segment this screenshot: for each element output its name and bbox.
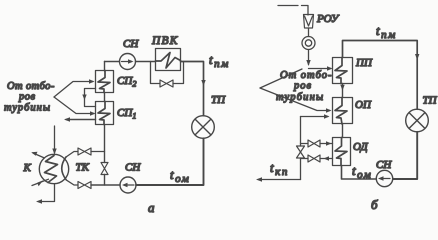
wire: valve to OD with arrow: [320, 143, 333, 145]
wire: ROU to attemperator: [308, 28, 310, 37]
pump SN (top): [120, 54, 136, 70]
svg-text:СП1: СП1: [117, 107, 137, 121]
svg-text:ТК: ТК: [76, 162, 90, 174]
wire: steam from boiler top line: [278, 6, 308, 16]
pump SN (b): [376, 170, 392, 186]
wire: SP1 drain out left arrow: [66, 119, 96, 121]
wire: SP2 top stub to top line: [104, 62, 106, 72]
reducing unit ROU: [304, 15, 314, 29]
wire: SP2 to SP1 stub: [104, 93, 106, 102]
wire: OD outlet line lower: [301, 158, 309, 160]
svg-text:ПП: ПП: [355, 57, 373, 69]
wire: OP drain line left with arrow: [301, 116, 329, 118]
svg-text:ОП: ОП: [355, 99, 372, 111]
wire: pump to OD bottom: [342, 166, 377, 180]
pump SN (bottom): [120, 177, 136, 193]
wire: extraction steam fan upper to SP2: [54, 82, 93, 98]
heating bundle TK crescent: [62, 157, 66, 180]
wire: vertical from SP1 down to bottom line: [104, 125, 106, 185]
wire: SP2 drain cascade into SP1: [85, 89, 96, 107]
svg-text:tпм: tпм: [376, 23, 397, 41]
wire: steam into PP: [309, 68, 332, 70]
wire: PVK bypass left drop: [151, 62, 161, 84]
svg-text:tпм: tпм: [209, 52, 230, 70]
wire: TP down to bottom return line: [136, 138, 204, 185]
svg-text:tом: tом: [170, 167, 190, 185]
wire: PVK bypass right rise: [173, 62, 184, 84]
svg-text:турбины: турбины: [4, 103, 51, 114]
valve on OD inlet: [308, 140, 320, 147]
wire: cooling water inlet bottom-left arrow: [32, 179, 49, 185]
svg-text:РОУ: РОУ: [316, 13, 340, 25]
flow arrow down on right vertical: [201, 80, 205, 86]
valve on OD outlet: [308, 155, 320, 162]
heat load TP (b): [406, 109, 429, 132]
heater OP: [333, 98, 353, 125]
svg-text:а: а: [148, 200, 155, 215]
condenser K cooling zigzag: [45, 156, 58, 183]
wire: PVK to right corner, down to TP: [181, 62, 204, 116]
condenser K body: [39, 154, 68, 183]
svg-text:СН: СН: [125, 162, 141, 174]
svg-text:СН: СН: [376, 159, 392, 171]
wire: condenser air line up-left with arrow: [33, 153, 45, 158]
wire: pump SN to PVK: [136, 61, 156, 63]
wire: steam exhaust into condenser top: [54, 126, 56, 153]
svg-text:От отбо-: От отбо-: [7, 81, 55, 92]
svg-text:ПВК: ПВК: [151, 35, 179, 47]
wire: extraction fan upper line to PP: [260, 69, 302, 88]
valve vertical TK bypass: [101, 163, 108, 175]
wire: OD inlet line upper: [301, 143, 309, 145]
wire: top line SP2 corner to pump SN left: [105, 61, 120, 63]
valve on TK top line: [78, 148, 91, 155]
wire: OD to valve with left arrow: [320, 158, 333, 160]
wire: OP bottom to OD top stub: [342, 124, 344, 138]
svg-text:СН: СН: [123, 38, 139, 50]
wire: drain out to t_kp: [258, 179, 301, 181]
wire: TK top line from vertical to valve: [91, 151, 105, 153]
wire: condensate drain from K bottom: [38, 184, 55, 202]
wire: extraction fan lower line to OP: [260, 88, 330, 111]
svg-text:ров: ров: [293, 81, 312, 92]
wire: drain vertical with bypass valve: [300, 117, 302, 180]
svg-text:ОД: ОД: [353, 141, 369, 153]
svg-text:ров: ров: [18, 92, 36, 103]
wire: attemperator down arrow: [308, 50, 310, 65]
heater PP: [333, 58, 353, 84]
flow arrow down right vertical (b): [415, 54, 419, 60]
heater SP2: [96, 71, 114, 93]
svg-text:tкп: tкп: [270, 160, 289, 178]
heat load TP (a): [192, 116, 215, 139]
svg-text:ТП: ТП: [211, 94, 226, 106]
label: from turbine extractions (b): [276, 70, 333, 103]
svg-text:б: б: [371, 197, 378, 212]
wire: pump to TK valve junction: [91, 184, 120, 186]
svg-text:ТП: ТП: [423, 95, 438, 107]
wire: TP (b) down to return line: [393, 132, 417, 179]
wire: valve to condenser bundle bottom: [66, 180, 78, 185]
valve on TK bottom line: [78, 182, 91, 189]
drain cooler OD: [333, 138, 351, 166]
wire: valve to condenser bundle top: [66, 152, 78, 158]
wire: extraction steam fan lower to SP1: [54, 97, 94, 114]
attemperator double circle: [302, 37, 315, 50]
svg-text:СП2: СП2: [117, 75, 137, 89]
boiler PVK: [156, 49, 181, 71]
valve on PVK bypass: [160, 80, 173, 87]
valve vertical on drain line: [297, 146, 305, 158]
label: from turbine extractions (a): [4, 81, 55, 114]
wire: PP bottom to OP top stub with down arrow: [342, 84, 344, 98]
wire: PP top to supply line t_pm: [343, 41, 418, 110]
svg-text:К: К: [23, 162, 32, 174]
heater SP1: [96, 102, 114, 125]
